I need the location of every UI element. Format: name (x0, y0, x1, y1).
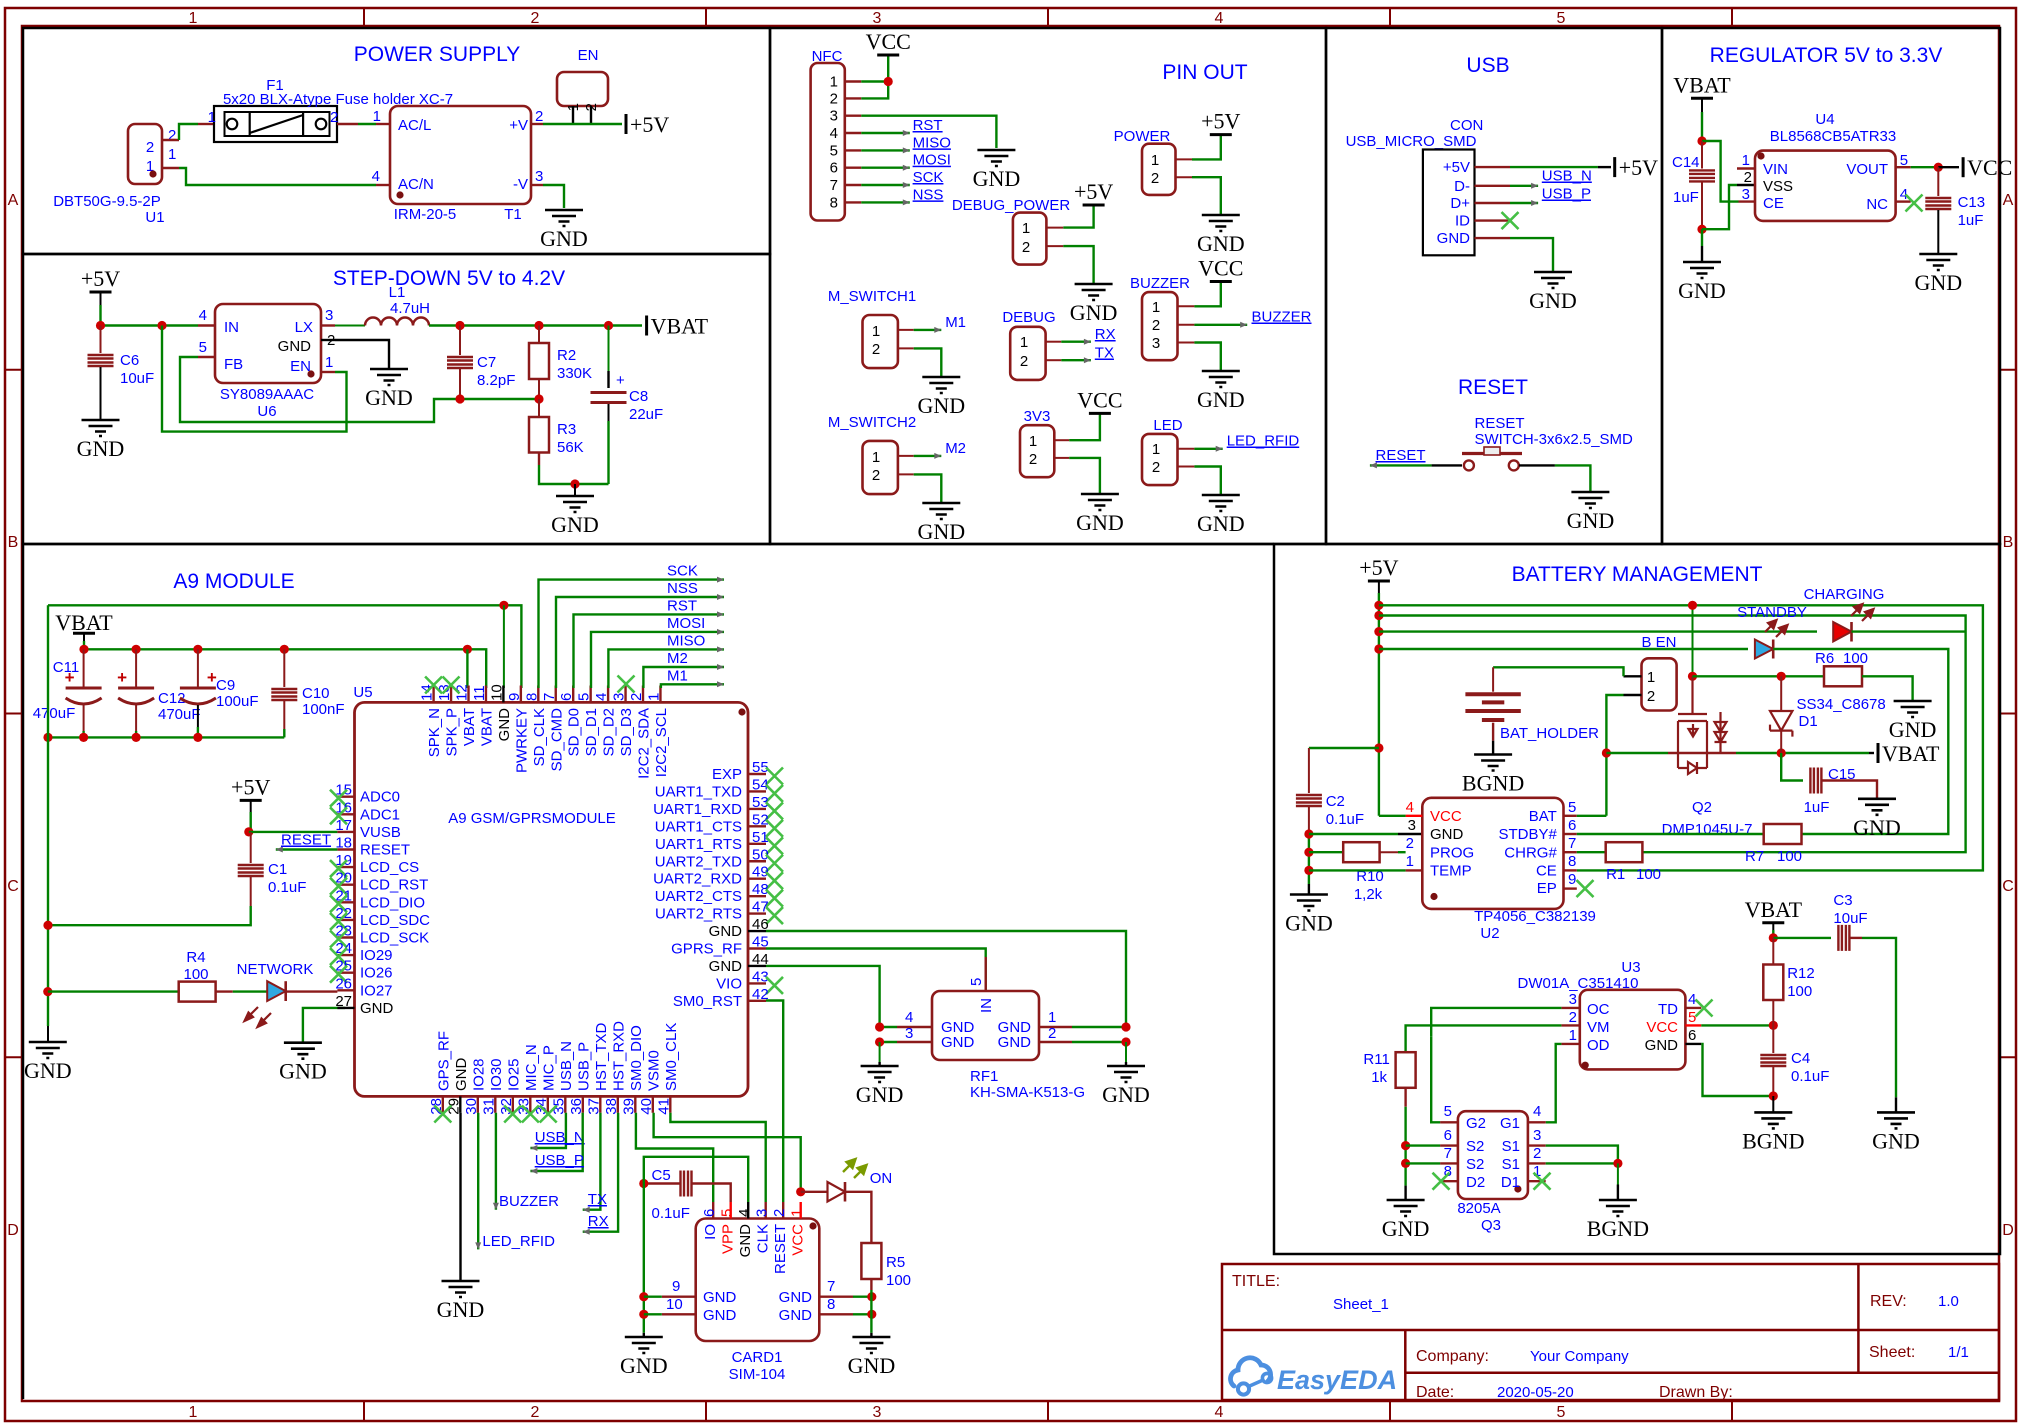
wire to C14 (1701, 141, 1703, 169)
svg-text:+: + (117, 668, 127, 687)
U5 bottom pin 36 stub (582, 1096, 584, 1112)
svg-text:26: 26 (335, 975, 352, 992)
wire C15 to GND (1821, 781, 1877, 799)
U5 right pin 47 stub (748, 912, 766, 914)
svg-text:C1: C1 (268, 861, 287, 878)
svg-text:G1: G1 (1500, 1115, 1520, 1132)
wire R5 to GND (870, 1279, 872, 1290)
svg-text:VIO: VIO (716, 975, 742, 992)
wire CON +5V to +5V flag (1510, 166, 1598, 168)
svg-text:NSS: NSS (667, 580, 698, 597)
svg-text:GND: GND (1285, 911, 1333, 936)
wire C13 to GND (1937, 210, 1939, 254)
no-connect X on U5 pin23 (330, 931, 347, 948)
power flag +5V (POWER) (1210, 133, 1232, 136)
ground (BUZZER) (1202, 371, 1240, 387)
U5 left pin 27 stub (337, 1007, 354, 1009)
wire C5 left to gnd rail (644, 1182, 680, 1184)
svg-text:5: 5 (1557, 10, 1566, 27)
no-connect X on U5 pin43 (766, 977, 783, 994)
svg-text:USB_N: USB_N (535, 1129, 585, 1146)
svg-text:1: 1 (872, 449, 880, 466)
svg-text:SD_D0: SD_D0 (566, 708, 583, 756)
svg-text:TD: TD (1658, 1001, 1678, 1018)
svg-text:SIM-104: SIM-104 (729, 1366, 786, 1383)
svg-text:1uF: 1uF (1804, 799, 1830, 816)
svg-text:USB_P: USB_P (535, 1152, 584, 1169)
pushbutton switch RESET SWITCH-3x6x2.5_SMD (1462, 452, 1522, 455)
wire rail4 to STANDBY LED (1379, 648, 1748, 650)
CON pin +5V stub (1475, 166, 1511, 168)
no-connect X on U5 pin14 (425, 677, 442, 694)
svg-text:GND: GND (703, 1289, 737, 1306)
svg-text:C9: C9 (216, 677, 235, 694)
svg-text:2: 2 (830, 90, 838, 107)
node VUSB junction (244, 827, 253, 836)
svg-text:USB_P: USB_P (575, 1042, 592, 1091)
CARD1 right side pins 7,8 (819, 1295, 853, 1297)
svg-text:3: 3 (1569, 991, 1577, 1008)
svg-text:ADC1: ADC1 (360, 806, 400, 823)
connector CON USB_MICRO_SMD (1423, 150, 1475, 256)
wire R10 to PROG (1380, 851, 1398, 853)
node R12/C4 junction (1769, 1021, 1778, 1030)
svg-text:M1: M1 (667, 667, 688, 684)
ruler column tick marks (364, 8, 1732, 1421)
wire NFC net MOSI (861, 166, 910, 168)
section box STEP-DOWN (23, 254, 770, 544)
svg-text:4: 4 (1533, 1103, 1541, 1120)
svg-text:VSS: VSS (1763, 178, 1793, 195)
CARD1 top pin 4 stub (747, 1202, 749, 1219)
svg-text:9: 9 (1568, 871, 1576, 888)
svg-text:GND: GND (279, 1059, 327, 1084)
svg-text:GND: GND (1645, 1037, 1679, 1054)
svg-text:22uF: 22uF (629, 406, 663, 423)
wire to C9 (197, 649, 199, 688)
no-connect X on CON ID pin (1502, 212, 1519, 229)
svg-text:USB: USB (1466, 54, 1509, 77)
U5 left pin 17 stub (337, 831, 354, 833)
svg-text:2: 2 (146, 139, 154, 156)
svg-text:C4: C4 (1791, 1050, 1810, 1067)
no-connect X on U5 pin13 (443, 677, 460, 694)
svg-text:SCK: SCK (667, 563, 698, 580)
svg-text:CON: CON (1450, 117, 1483, 134)
power flag +5V (DEBUG_POWER) (1083, 204, 1105, 207)
svg-text:ID: ID (1455, 213, 1470, 230)
svg-text:CARD1: CARD1 (732, 1349, 783, 1366)
svg-text:HST_TXD: HST_TXD (593, 1022, 610, 1091)
section box POWER SUPPLY (23, 28, 770, 254)
power flag VCC (NFC) (877, 54, 899, 57)
svg-text:1: 1 (325, 354, 333, 371)
svg-text:VCC: VCC (1077, 387, 1122, 412)
U5 left pin 26 stub (337, 989, 354, 991)
svg-text:GND: GND (437, 1297, 485, 1322)
svg-text:C10: C10 (302, 685, 330, 702)
wire +5V stem (battery) (1378, 581, 1380, 593)
svg-text:EXP: EXP (712, 766, 742, 783)
svg-text:C13: C13 (1958, 194, 1986, 211)
svg-text:GND: GND (540, 226, 588, 251)
svg-text:1: 1 (1048, 1009, 1056, 1026)
wire R6 row (1693, 675, 1825, 677)
svg-text:+5V: +5V (1074, 179, 1113, 204)
svg-text:IO25: IO25 (505, 1058, 522, 1091)
node C6 top junction (96, 321, 105, 330)
svg-text:2: 2 (1151, 170, 1159, 187)
wire NFC net RST (861, 132, 910, 134)
svg-text:6: 6 (701, 1209, 718, 1217)
capacitor C3 10uF (1838, 925, 1849, 951)
power flag +5V (battery) (1368, 580, 1390, 583)
B EN header pin stubs (1624, 675, 1642, 677)
svg-text:GND: GND (1567, 508, 1615, 533)
svg-text:VM: VM (1587, 1019, 1610, 1036)
svg-text:GND: GND (709, 958, 743, 975)
svg-text:SCK: SCK (913, 169, 944, 186)
wire U5 pin42 SM0_RST to CARD1 RESET (766, 1001, 783, 1203)
svg-text:3V3: 3V3 (1024, 408, 1051, 425)
svg-text:4.7uH: 4.7uH (390, 300, 430, 317)
svg-text:VCC: VCC (790, 1224, 807, 1256)
svg-text:GND: GND (620, 1353, 668, 1378)
svg-text:M1: M1 (945, 314, 966, 331)
ground (C13) (1919, 254, 1957, 270)
NFC pin 1 stub (845, 80, 862, 82)
svg-text:Your Company: Your Company (1530, 1348, 1629, 1365)
svg-text:+5V: +5V (231, 774, 270, 799)
battery ground BGND (C4) (1754, 1112, 1792, 1128)
svg-text:USB_MICRO_SMD: USB_MICRO_SMD (1346, 133, 1477, 150)
svg-text:RESET: RESET (1475, 415, 1525, 432)
svg-text:4: 4 (1688, 991, 1696, 1008)
LED pin1 stub (1178, 448, 1195, 450)
wire S2 pins to R11 rail (1406, 1144, 1441, 1146)
svg-text:TX: TX (1095, 345, 1114, 362)
svg-text:IO26: IO26 (360, 965, 393, 982)
node C11 bottom (79, 733, 88, 742)
ruler row tick marks (5, 370, 2016, 1058)
3V3 pin2 stub (1054, 457, 1069, 459)
svg-text:5: 5 (199, 339, 207, 356)
wire battery positive stub (1492, 667, 1494, 691)
wire C10 bottom (283, 701, 285, 729)
wire header pin2 to BAT rail (1606, 695, 1623, 816)
node VBAT stem (79, 645, 88, 654)
svg-text:56K: 56K (557, 439, 584, 456)
node S2b (1401, 1159, 1410, 1168)
svg-text:2: 2 (872, 341, 880, 358)
no-connect X on U5 pin52 (766, 820, 783, 837)
svg-text:1: 1 (1151, 152, 1159, 169)
svg-text:3: 3 (754, 1209, 771, 1217)
svg-text:C: C (7, 878, 19, 895)
wire rail2 to CHRG loop (1379, 616, 1966, 853)
no-connect X on U5 pin34 (540, 1106, 557, 1123)
svg-text:CHRG#: CHRG# (1504, 845, 1557, 862)
svg-text:Drawn By:: Drawn By: (1659, 1384, 1733, 1401)
svg-text:2: 2 (1647, 688, 1655, 705)
ground (RF1 left) (861, 1066, 899, 1082)
node C7 top (455, 321, 464, 330)
wire C14 bottom (1701, 182, 1703, 229)
LED pin2 stub (1178, 466, 1195, 468)
node VCC junction (NFC) (884, 77, 893, 86)
svg-text:R4: R4 (186, 949, 205, 966)
ground (A9 left rail) (29, 1042, 67, 1058)
svg-text:9: 9 (506, 693, 523, 701)
no-connect X on U5 pin24 (330, 948, 347, 965)
svg-text:3: 3 (905, 1025, 913, 1042)
wire G2 riser to VM/OC (1431, 1037, 1440, 1123)
transformer module T1 IRM-20-5 (390, 106, 531, 204)
svg-text:SPK_P: SPK_P (444, 708, 461, 756)
svg-text:S2: S2 (1466, 1138, 1484, 1155)
svg-text:7: 7 (1444, 1145, 1452, 1162)
svg-text:1: 1 (1022, 220, 1030, 237)
connector NFC (811, 63, 845, 221)
svg-text:30: 30 (463, 1098, 480, 1115)
ground (C3) (1877, 1112, 1915, 1128)
svg-text:GND: GND (1197, 231, 1245, 256)
svg-text:SD_D2: SD_D2 (601, 708, 618, 756)
svg-text:4: 4 (1406, 799, 1414, 816)
wire LED to U5 pin26 (286, 990, 338, 992)
svg-text:R2: R2 (557, 347, 576, 364)
no-connect X on U5 pin51 (766, 837, 783, 854)
wire to C6 (100, 326, 102, 354)
svg-text:1k: 1k (1371, 1069, 1387, 1086)
wire LED pin2 to GND (1194, 467, 1220, 495)
svg-text:SM0_RST: SM0_RST (673, 993, 742, 1010)
wire header pin1 to BAT_HOLDER (1493, 667, 1623, 676)
svg-text:IO: IO (702, 1224, 719, 1240)
svg-text:SM0_DIO: SM0_DIO (628, 1025, 645, 1091)
svg-text:3: 3 (1742, 186, 1750, 203)
svg-text:2: 2 (1406, 835, 1414, 852)
ground (RESET) (1571, 492, 1609, 508)
wire net M2 (914, 455, 942, 457)
wire net USB_N (1510, 185, 1538, 187)
svg-text:RESET: RESET (772, 1224, 789, 1274)
wire to C7 (459, 326, 461, 356)
svg-text:M_SWITCH1: M_SWITCH1 (828, 288, 916, 305)
wire net M1 (U5 top) (661, 684, 724, 688)
wire RF1 left gnd drop (879, 1042, 881, 1062)
svg-text:GND: GND (365, 385, 413, 410)
node RF1 pin4 (875, 1022, 884, 1031)
node EN loop junction (157, 321, 166, 330)
POWER pin2 stub (1176, 176, 1193, 178)
svg-text:SS34_C8678: SS34_C8678 (1797, 696, 1886, 713)
svg-text:ON: ON (870, 1170, 893, 1187)
svg-text:5: 5 (1444, 1103, 1452, 1120)
svg-text:GND: GND (703, 1307, 737, 1324)
svg-text:2: 2 (1020, 353, 1028, 370)
wire C7 to divider (459, 369, 461, 399)
section box PIN OUT (770, 28, 1326, 544)
wire T1 +V to +5V flag (531, 123, 543, 125)
svg-text:2: 2 (1152, 459, 1160, 476)
DEBUG pin1 stub (1046, 341, 1062, 343)
node +5V rail w1 (1374, 601, 1383, 610)
svg-text:1: 1 (1569, 1027, 1577, 1044)
wire U2 GND pin3 (1309, 833, 1398, 835)
U5 top pin 10 stub (502, 686, 504, 703)
svg-text:10: 10 (666, 1296, 683, 1313)
DEBUG_POWER pin1 stub (1046, 227, 1063, 229)
no-connect X on U5 pin55 (766, 768, 783, 785)
wire net MISO (U5 top) (608, 649, 724, 688)
U5 right pin 46 stub (748, 930, 766, 932)
svg-text:UART1_RTS: UART1_RTS (655, 836, 742, 853)
svg-text:AC/N: AC/N (398, 176, 434, 193)
svg-text:B: B (8, 534, 19, 551)
svg-text:2: 2 (1533, 1145, 1541, 1162)
svg-text:VBAT: VBAT (651, 314, 709, 339)
section box REGULATOR (1662, 28, 2000, 544)
svg-text:1: 1 (1020, 334, 1028, 351)
header EN (power supply) (557, 72, 608, 106)
ground (C6) (82, 420, 120, 436)
wire U5 pin29 GND (459, 1113, 461, 1281)
svg-text:UART2_TXD: UART2_TXD (655, 853, 742, 870)
RF1 pin stubs (985, 957, 987, 991)
node C5 left (639, 1179, 648, 1188)
node C14 bottom junction (1697, 225, 1706, 234)
wire to D1 (1780, 676, 1782, 711)
wire to C4 (1772, 1025, 1774, 1053)
NFC pin 5 stub (845, 149, 862, 151)
svg-text:GND: GND (24, 1058, 72, 1083)
svg-text:3: 3 (873, 10, 882, 27)
wire GND top run to U5 pins 10/9 (48, 605, 521, 688)
svg-text:C7: C7 (477, 354, 496, 371)
node VBAT/C3 (1769, 933, 1778, 942)
U5 right pin 42 stub (748, 1000, 766, 1002)
svg-text:NC: NC (1866, 196, 1888, 213)
wire R6 to GND (1862, 676, 1913, 700)
svg-text:GND: GND (1437, 230, 1471, 247)
wire C2/GND rail of U2 (1308, 834, 1310, 884)
svg-text:7: 7 (827, 1278, 835, 1295)
wire net SCK (U5 top) (539, 580, 725, 688)
CARD1 top pin 3 stub (765, 1202, 767, 1219)
wire C1 to left rail (48, 906, 251, 925)
wire U3 VM pin2 to R11 (1406, 1025, 1562, 1052)
svg-text:U4: U4 (1815, 111, 1834, 128)
U5 top pin 2 stub (642, 686, 644, 703)
node R10 left (1304, 848, 1313, 857)
connector U1 DBT50G-9.5-2P (128, 124, 162, 184)
BUZZER pin3 stub (1178, 342, 1195, 344)
svg-text:2: 2 (1152, 317, 1160, 334)
svg-text:C2: C2 (1326, 793, 1345, 810)
svg-text:R7: R7 (1745, 848, 1764, 865)
svg-text:2: 2 (531, 1404, 540, 1421)
svg-text:5: 5 (830, 142, 838, 159)
node C13 top junction (1934, 163, 1943, 172)
resistor R4 100 (179, 982, 216, 1002)
svg-text:9: 9 (672, 1278, 680, 1295)
power flag VCC (BUZZER) (1210, 280, 1232, 283)
svg-text:REGULATOR 5V to 3.3V: REGULATOR 5V to 3.3V (1710, 44, 1943, 67)
svg-text:I2C2_SCL: I2C2_SCL (653, 708, 670, 777)
svg-text:1: 1 (1406, 853, 1414, 870)
svg-text:GND: GND (77, 436, 125, 461)
no-connect X on U5 pin15 (330, 790, 347, 807)
svg-text:PIN OUT: PIN OUT (1162, 61, 1247, 84)
svg-text:RESET: RESET (1458, 376, 1528, 399)
U5 top pin 7 stub (555, 686, 557, 703)
svg-text:1: 1 (1742, 152, 1750, 169)
wire U1 pin2 to fuse F1 pin1 (179, 124, 198, 140)
wire STDBY row to R7 (1577, 833, 1764, 835)
wire VOUT to VCC flag (1896, 166, 1911, 168)
wire 3V3 pin2 to GND (1069, 458, 1100, 493)
title block outline (1222, 1264, 1999, 1400)
U5 top pin 14 stub (432, 686, 434, 703)
wire LED to R5 (845, 1192, 871, 1243)
wire U5 pin46 GND to RF1 right ground (766, 931, 1126, 1027)
svg-text:470uF: 470uF (158, 706, 201, 723)
regulator U4 BL8568CB5ATR33 (1755, 151, 1896, 221)
svg-text:BUZZER: BUZZER (1130, 275, 1190, 292)
U5 bottom pin 33 stub (529, 1096, 531, 1112)
svg-text:PWRKEY: PWRKEY (513, 708, 530, 773)
ground (3V3) (1081, 494, 1119, 510)
svg-text:NFC: NFC (812, 48, 843, 65)
LED ON (SIM power) (828, 1182, 846, 1202)
svg-text:41: 41 (655, 1098, 672, 1115)
svg-text:UART2_CTS: UART2_CTS (655, 888, 742, 905)
wire to C1 (250, 832, 252, 863)
wire U2 BAT pin5 (1564, 815, 1577, 817)
wire FB feedback loop (180, 357, 539, 422)
svg-text:CE: CE (1763, 195, 1784, 212)
M_SWITCH2 pin2 stub (898, 473, 914, 475)
svg-text:1: 1 (189, 1404, 198, 1421)
svg-text:C11: C11 (53, 659, 79, 676)
svg-text:37: 37 (585, 1098, 602, 1115)
resistor R11 1k (1396, 1052, 1416, 1088)
svg-text:1: 1 (1029, 433, 1037, 450)
node S1 junction (1613, 1159, 1622, 1168)
svg-text:A: A (8, 192, 19, 209)
capacitor C15 1uF (1781, 753, 1803, 781)
svg-text:D+: D+ (1450, 195, 1470, 212)
svg-text:Sheet_1: Sheet_1 (1333, 1296, 1389, 1313)
svg-text:GND: GND (1382, 1216, 1430, 1241)
svg-text:GND: GND (1076, 510, 1124, 535)
svg-text:GND: GND (1430, 826, 1464, 843)
svg-text:6: 6 (830, 160, 838, 177)
wire net USB_N (U5 pin35) (530, 1113, 566, 1148)
wire net USB_P (1510, 202, 1538, 204)
node RF1 pin3 (875, 1037, 884, 1046)
wire net TX (U5 pin37) (583, 1113, 601, 1210)
CARD1 top pin 5 stub (730, 1202, 732, 1219)
CARD1 top pin 6 stub (712, 1202, 714, 1219)
svg-text:BAT: BAT (1529, 808, 1557, 825)
svg-text:UART2_RTS: UART2_RTS (655, 906, 742, 923)
U5 left pin 19 stub (337, 866, 354, 868)
resistor R6 100 (1824, 666, 1862, 686)
svg-text:3: 3 (1152, 335, 1160, 352)
U1 pin stubs (162, 139, 179, 141)
